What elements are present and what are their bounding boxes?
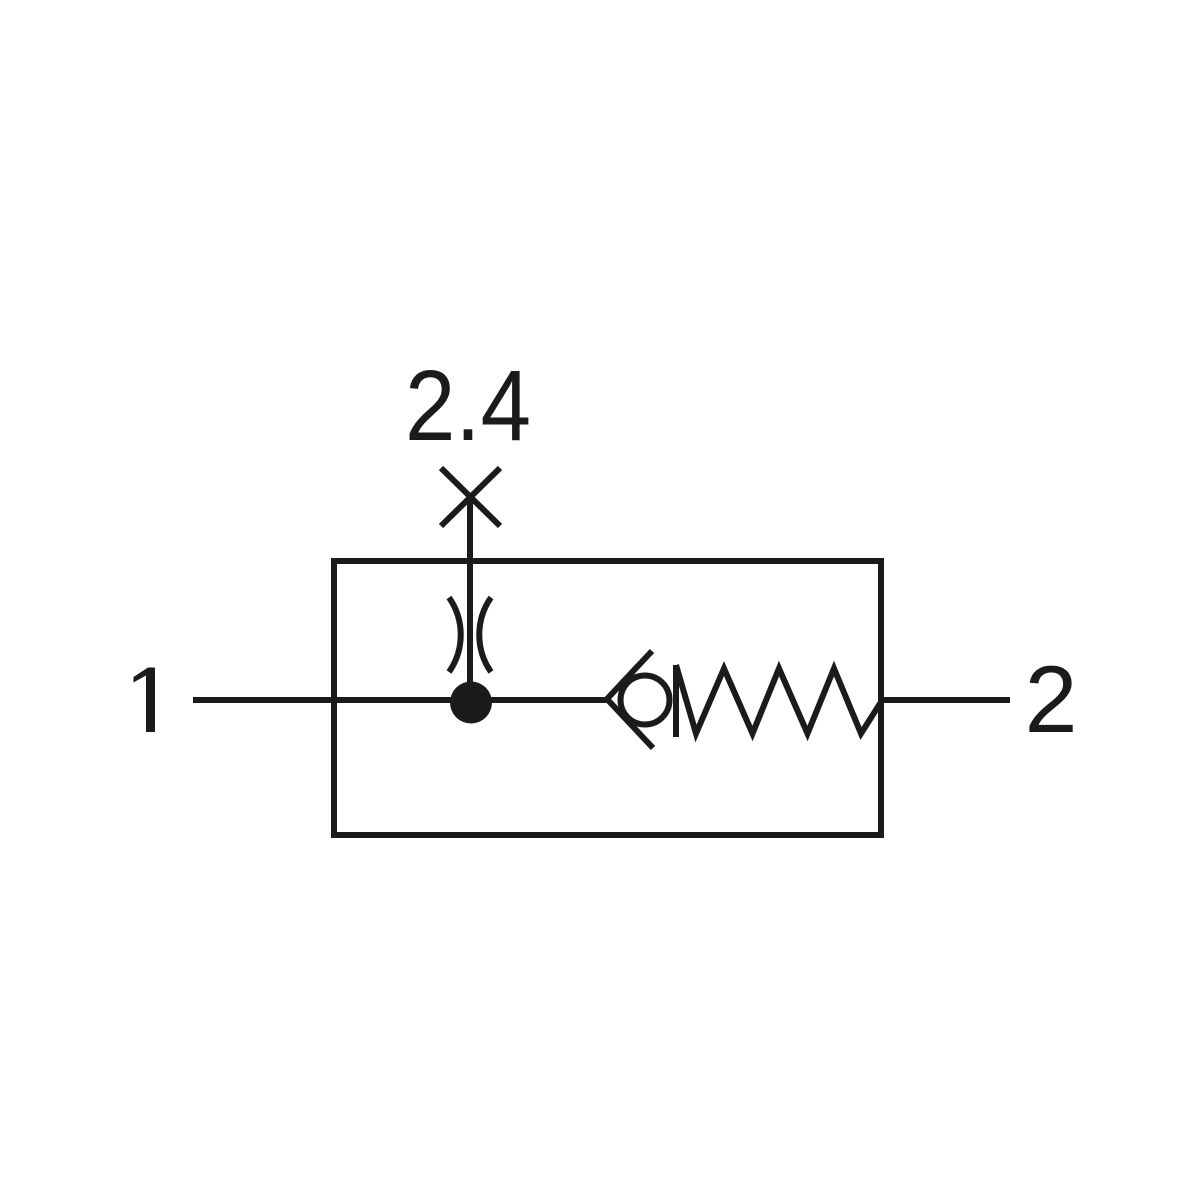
svg-text:2.4: 2.4 [405, 350, 531, 462]
svg-text:2: 2 [1025, 647, 1078, 753]
